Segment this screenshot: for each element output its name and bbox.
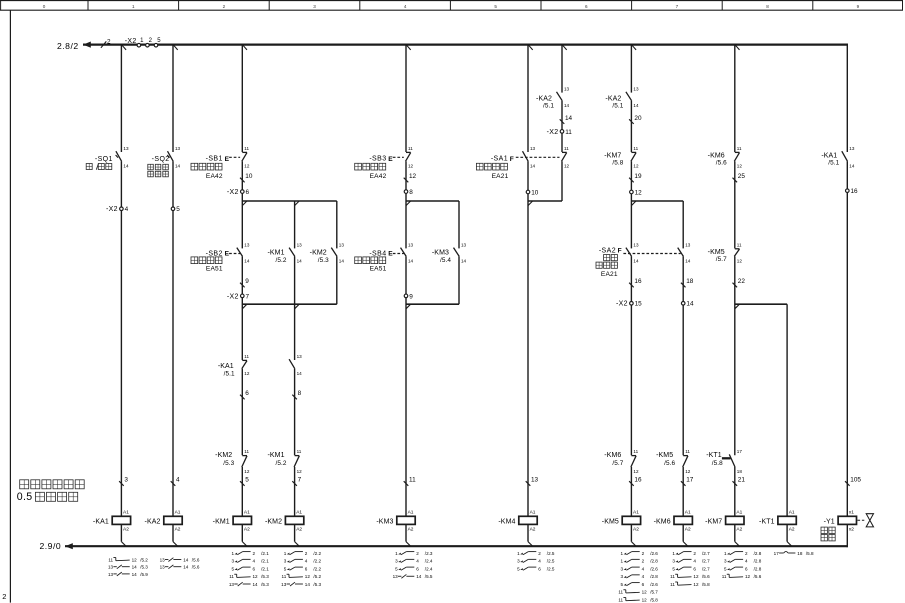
wire col3 node6 <box>241 369 243 456</box>
svg-text:/2.8: /2.8 <box>754 559 762 564</box>
svg-text:E: E <box>225 251 230 258</box>
label -KA2 /5.1 <box>536 96 554 110</box>
svg-text:/5.3: /5.3 <box>261 574 269 579</box>
rail branch to KT1 coil <box>735 303 787 305</box>
svg-text:3: 3 <box>672 559 675 564</box>
svg-text:/2.5: /2.5 <box>547 566 555 571</box>
rail SA1 poles merge <box>528 200 562 202</box>
svg-text:11: 11 <box>564 146 569 151</box>
svg-text:/5.7: /5.7 <box>612 460 623 467</box>
SB1 actuator dashed link <box>229 156 240 158</box>
svg-text:/5.4: /5.4 <box>440 257 451 264</box>
svg-text:5: 5 <box>517 566 520 571</box>
svg-text:-SQ2: -SQ2 <box>152 156 170 163</box>
svg-text:/5.2: /5.2 <box>140 557 148 562</box>
svg-text:A1: A1 <box>530 510 536 516</box>
svg-text:14: 14 <box>123 164 129 169</box>
svg-text:E: E <box>388 251 393 258</box>
svg-text:-KA1: -KA1 <box>821 153 837 160</box>
wire number 8 <box>292 390 301 399</box>
wire number 11 <box>404 477 416 486</box>
svg-text:/5.8: /5.8 <box>712 460 723 467</box>
svg-text:/5.1: /5.1 <box>543 103 554 110</box>
svg-text:-SA1: -SA1 <box>491 156 508 163</box>
svg-text:/5.2: /5.2 <box>276 257 287 264</box>
label -KA1 /5.1 <box>218 363 235 378</box>
time relay coil KT1 <box>759 510 796 533</box>
svg-text:14: 14 <box>305 582 311 587</box>
svg-text:12: 12 <box>737 259 743 264</box>
svg-text:/2.2: /2.2 <box>313 566 321 571</box>
svg-text:12: 12 <box>244 469 250 474</box>
svg-text:13: 13 <box>244 242 250 247</box>
label text 砂轮架 <box>148 164 169 170</box>
svg-text:4: 4 <box>404 4 407 9</box>
svg-text:5: 5 <box>284 566 287 571</box>
contactor coil KM5 (head low speed) <box>602 510 641 533</box>
label EA51 (SB4) <box>370 265 387 272</box>
title strip frame <box>0 1 903 11</box>
interlock contact KM5 11-12 (second) <box>734 242 742 263</box>
svg-text:-X2: -X2 <box>616 301 628 308</box>
svg-text:11: 11 <box>565 129 572 136</box>
svg-text:13: 13 <box>461 242 467 247</box>
label -SQ2 砂轮架 进到位 <box>152 156 170 163</box>
svg-text:1: 1 <box>672 551 675 556</box>
holding contact KM1 13-14 <box>289 242 302 263</box>
svg-text:5: 5 <box>176 206 180 213</box>
terminal -X2:5 <box>171 206 180 213</box>
label EA21 (SA1) <box>492 173 509 180</box>
junction <box>632 45 636 50</box>
svg-text:A1: A1 <box>789 510 795 516</box>
svg-text:13: 13 <box>393 574 399 579</box>
svg-text:18: 18 <box>797 551 803 556</box>
holding contact KM3 13-14 <box>454 242 467 263</box>
wire col8.5 bottom <box>786 524 788 541</box>
terminal -X2:6 <box>227 189 250 196</box>
svg-text:2.9/0: 2.9/0 <box>40 541 62 551</box>
svg-text:1: 1 <box>231 551 234 556</box>
svg-text:-KM7: -KM7 <box>604 153 621 160</box>
label -KT1 /5.8 <box>706 452 723 467</box>
selector switch SA2 right pole 13-14 <box>678 242 691 263</box>
svg-text:-SA2: -SA2 <box>599 247 616 254</box>
wire number 6 <box>240 390 249 399</box>
svg-text:11: 11 <box>633 449 638 454</box>
relay contact KA1 11-12 (internal/external select) <box>242 354 250 376</box>
wire col3.5 above coil <box>294 467 296 516</box>
svg-text:9: 9 <box>409 293 413 300</box>
wire col7 upper <box>682 201 684 248</box>
wire col9 middle <box>846 161 848 516</box>
svg-text:-KM6: -KM6 <box>654 518 671 525</box>
wire number 20 <box>629 115 642 124</box>
wire col2 bottom <box>172 524 174 541</box>
label text 液压停止 <box>355 163 386 170</box>
contact cross-ref table KM6 <box>670 551 710 587</box>
terminal 10 <box>526 189 539 196</box>
contactor coil KM4 (coolant pump) <box>498 510 537 533</box>
wire col5.5 top <box>561 45 563 93</box>
label -KM3 /5.4 <box>432 250 451 265</box>
svg-text:13: 13 <box>123 146 129 151</box>
junction <box>735 542 740 547</box>
label EA42 (SB3) <box>370 173 387 180</box>
svg-text:-X2: -X2 <box>106 206 118 213</box>
junction <box>528 201 533 206</box>
timer delayed contact KT1 17-18 <box>722 449 742 474</box>
svg-text:A2: A2 <box>736 527 742 533</box>
junction <box>242 304 247 309</box>
wire col7 above coil <box>682 467 684 516</box>
svg-text:14: 14 <box>565 115 573 122</box>
svg-text:5: 5 <box>231 566 234 571</box>
junction <box>122 45 126 50</box>
svg-text:-KM5: -KM5 <box>656 452 673 459</box>
svg-text:/5.8: /5.8 <box>612 160 623 167</box>
svg-text:-Y1: -Y1 <box>824 518 835 525</box>
stop pushbutton SB3 contact 11-12 <box>406 146 414 169</box>
terminal 16 <box>846 188 859 195</box>
svg-text:/5.3: /5.3 <box>261 582 269 587</box>
svg-text:A1: A1 <box>408 510 414 516</box>
svg-text:/2.8: /2.8 <box>650 559 658 564</box>
svg-text:/5.6: /5.6 <box>702 574 710 579</box>
svg-text:/2.4: /2.4 <box>425 566 433 571</box>
terminal -X2:15 <box>616 301 642 308</box>
wire number 10 <box>240 173 253 182</box>
svg-text:/5.6: /5.6 <box>192 565 200 570</box>
svg-text:13: 13 <box>160 565 166 570</box>
wire number 12 <box>404 173 417 182</box>
wire col5.5 bottom <box>561 161 563 201</box>
svg-text:A1: A1 <box>633 510 639 516</box>
svg-text:EA51: EA51 <box>370 265 387 272</box>
svg-text:11: 11 <box>244 354 249 359</box>
svg-text:12: 12 <box>635 189 643 196</box>
note 未作标注的为 0.5平方线径 <box>17 480 84 503</box>
svg-text:/2.1: /2.1 <box>261 559 269 564</box>
label text 床头 <box>604 255 618 261</box>
svg-text:4: 4 <box>745 559 748 564</box>
svg-text:2.8/2: 2.8/2 <box>57 41 79 51</box>
terminal 12 <box>630 189 643 196</box>
svg-text:/5.8: /5.8 <box>650 597 658 602</box>
svg-text:4: 4 <box>642 566 645 571</box>
svg-text:8: 8 <box>766 4 769 9</box>
wire col8 above coil <box>734 467 736 516</box>
svg-text:12: 12 <box>642 590 648 595</box>
svg-text:A2: A2 <box>244 527 250 533</box>
junction <box>736 45 740 50</box>
svg-text:13: 13 <box>297 242 303 247</box>
svg-text:-SB2: -SB2 <box>206 250 223 257</box>
label text 高低速 <box>596 262 617 268</box>
label text 砂轮启动 <box>191 257 222 264</box>
contact cross-ref table KM7 <box>722 551 762 579</box>
svg-text:/5.3: /5.3 <box>223 460 234 467</box>
svg-text:/5.1: /5.1 <box>828 160 839 167</box>
svg-text:/5.7: /5.7 <box>650 590 658 595</box>
svg-text:14: 14 <box>686 301 694 308</box>
wire col1 top <box>120 45 122 152</box>
svg-text:/5.9: /5.9 <box>140 572 148 577</box>
svg-text:14: 14 <box>339 259 345 264</box>
svg-text:13: 13 <box>633 87 639 92</box>
svg-text:-KA2: -KA2 <box>605 96 621 103</box>
svg-text:13: 13 <box>229 582 235 587</box>
svg-text:x1: x1 <box>849 510 854 516</box>
svg-text:/2.2: /2.2 <box>313 559 321 564</box>
svg-text:EA42: EA42 <box>370 173 387 180</box>
svg-text:12: 12 <box>244 371 250 376</box>
svg-text:/2.7: /2.7 <box>702 559 710 564</box>
svg-text:14: 14 <box>132 565 138 570</box>
interlock contact KM7 11-12 <box>631 146 639 169</box>
wire col2 top <box>172 45 174 152</box>
svg-text:22: 22 <box>738 278 746 285</box>
svg-text:11: 11 <box>244 146 249 151</box>
svg-text:E: E <box>225 156 230 163</box>
wire col8.5 <box>786 304 788 516</box>
svg-text:13: 13 <box>849 146 855 151</box>
svg-text:/5.2: /5.2 <box>313 574 321 579</box>
left page border <box>9 10 11 602</box>
svg-text:11: 11 <box>229 574 234 579</box>
svg-text:0: 0 <box>43 4 46 9</box>
label -SB1 E 砂轮停止 EA42 <box>206 156 230 163</box>
interlock contact KM6 11-12 (second) <box>734 146 742 169</box>
label EA51 (SB2) <box>206 265 223 272</box>
stop pushbutton SB1 contact 11-12 <box>242 146 250 169</box>
svg-text:3: 3 <box>231 559 234 564</box>
wire col4 top <box>405 45 407 152</box>
svg-text:A2: A2 <box>175 527 181 533</box>
svg-text:A2: A2 <box>408 527 414 533</box>
svg-text:4: 4 <box>305 559 308 564</box>
wire col4 node12 <box>405 161 407 248</box>
svg-text:14: 14 <box>849 164 855 169</box>
svg-text:/2.5: /2.5 <box>547 551 555 556</box>
svg-text:F: F <box>618 248 622 255</box>
wire number 7 <box>292 477 301 486</box>
wire col3 node9 <box>241 256 243 360</box>
svg-text:1: 1 <box>395 551 398 556</box>
interlock contact KM2 11-12 <box>242 449 250 474</box>
svg-text:/2.3: /2.3 <box>425 551 433 556</box>
svg-text:5: 5 <box>494 4 497 9</box>
svg-text:2: 2 <box>538 551 541 556</box>
rail node12 to SA2 right pole <box>631 200 683 202</box>
wire number 17 <box>681 477 694 486</box>
svg-text:4: 4 <box>538 559 541 564</box>
label -SB2 E 砂轮启动 EA51 <box>206 250 230 257</box>
svg-text:12: 12 <box>244 164 250 169</box>
svg-text:16: 16 <box>634 278 642 285</box>
junction <box>173 542 178 547</box>
contact cross-ref table KT1 <box>774 551 814 556</box>
label text 液压启动 <box>355 257 386 264</box>
svg-text:/5.8: /5.8 <box>702 582 710 587</box>
svg-text:/2.2: /2.2 <box>313 551 321 556</box>
wire col1 bottom <box>120 524 122 541</box>
svg-text:14: 14 <box>175 164 181 169</box>
wire col4.5 upper <box>458 201 460 248</box>
label -KM7 /5.8 <box>604 153 623 167</box>
svg-text:5: 5 <box>672 566 675 571</box>
selector switch SA1 left pole 13-14 <box>523 146 536 169</box>
wire col6 above coil <box>630 467 632 516</box>
label -KA2 /5.1 (second) <box>605 96 623 110</box>
wire number 16 (above KM5) <box>629 477 642 486</box>
label -KM2 /5.3 (hold) <box>310 250 329 265</box>
wire col6 node20 <box>630 101 632 152</box>
svg-text:12: 12 <box>685 469 691 474</box>
wire number 3 <box>119 477 128 486</box>
terminal 14 <box>681 301 694 308</box>
svg-text:-KM5: -KM5 <box>708 249 725 256</box>
svg-text:12: 12 <box>305 574 311 579</box>
svg-text:14: 14 <box>633 103 639 108</box>
svg-text:6: 6 <box>745 566 748 571</box>
label -KM6 /5.7 <box>604 452 623 467</box>
wire number 16 <box>629 278 642 287</box>
svg-text:8: 8 <box>298 390 302 397</box>
svg-text:A2: A2 <box>530 527 536 533</box>
svg-text:5: 5 <box>724 566 727 571</box>
svg-text:6: 6 <box>246 189 250 196</box>
contactor coil KM7 <box>705 510 744 533</box>
svg-text:3: 3 <box>517 559 520 564</box>
svg-text:A1: A1 <box>175 510 181 516</box>
svg-text:2: 2 <box>305 551 308 556</box>
relay coil KA1 <box>93 510 131 533</box>
svg-text:3: 3 <box>395 559 398 564</box>
SB4 actuator dashed link <box>393 253 404 255</box>
svg-text:7: 7 <box>298 477 302 484</box>
svg-text:12: 12 <box>693 582 699 587</box>
svg-text:/2.7: /2.7 <box>702 551 710 556</box>
wire col8 bottom <box>734 524 736 541</box>
svg-text:4: 4 <box>125 206 129 213</box>
svg-text:14: 14 <box>244 259 250 264</box>
junction <box>295 304 300 309</box>
wire number 13 <box>526 477 539 486</box>
svg-text:-KA1: -KA1 <box>218 363 234 370</box>
relay coil KA2 <box>145 510 183 533</box>
junction <box>528 542 533 547</box>
wire col6 node19 <box>630 161 632 248</box>
junction <box>406 542 411 547</box>
svg-text:6: 6 <box>693 566 696 571</box>
svg-text:6: 6 <box>642 582 645 587</box>
svg-text:1: 1 <box>621 551 624 556</box>
rail start-branch (node 6) SB2/KM1/KM2 parallel <box>242 200 336 202</box>
svg-text:/2.6: /2.6 <box>650 551 658 556</box>
contact cross-ref table KA2 <box>160 557 200 569</box>
label -SA1 F 冷却开关 EA21 <box>491 156 514 163</box>
svg-text:/5.6: /5.6 <box>192 557 200 562</box>
svg-text:3: 3 <box>621 574 624 579</box>
contactor coil KM3 (hydraulic) <box>376 510 415 533</box>
label -KM6 /5.6 <box>708 153 727 167</box>
svg-text:/2.4: /2.4 <box>425 559 433 564</box>
svg-text:/2.6: /2.6 <box>650 566 658 571</box>
svg-text:/5.5: /5.5 <box>425 574 433 579</box>
svg-text:A1: A1 <box>296 510 302 516</box>
label -KA1 /5.1 (col9) <box>821 153 839 167</box>
label text 砂轮停止 <box>191 163 222 170</box>
rail rejoin SB4/KM3 parallel <box>406 303 459 305</box>
terminal -X2:4 <box>106 206 129 213</box>
contact cross-ref table KM4 <box>517 551 555 572</box>
svg-text:-KM4: -KM4 <box>498 518 515 525</box>
svg-text:7: 7 <box>676 4 679 9</box>
wire col5 bottom <box>527 524 529 541</box>
svg-text:13: 13 <box>297 354 303 359</box>
svg-text:13: 13 <box>281 582 287 587</box>
svg-text:6: 6 <box>245 390 249 397</box>
svg-text:A2: A2 <box>685 527 691 533</box>
wire col3 above coil <box>241 467 243 516</box>
svg-text:5: 5 <box>395 566 398 571</box>
svg-text:9: 9 <box>857 4 860 9</box>
interlock contact KM1 11-12 <box>294 449 302 474</box>
selector switch SA2 left pole 13-14 <box>626 242 639 263</box>
svg-text:14: 14 <box>461 259 467 264</box>
svg-text:18: 18 <box>686 278 694 285</box>
SA2 selector dashed linkage <box>623 253 680 255</box>
wire col3 node10 <box>241 161 243 248</box>
svg-text:12: 12 <box>132 557 138 562</box>
wire col9 bottom <box>846 524 848 547</box>
svg-text:2: 2 <box>253 551 256 556</box>
label -KM1 /5.2 (interlock) <box>267 452 286 467</box>
wire col8 node22 <box>734 256 736 455</box>
svg-text:-KM3: -KM3 <box>376 518 393 525</box>
junction <box>406 304 411 309</box>
svg-text:13: 13 <box>160 557 166 562</box>
svg-text:19: 19 <box>634 173 642 180</box>
svg-text:-KM1: -KM1 <box>267 250 284 257</box>
svg-text:/2.1: /2.1 <box>261 551 269 556</box>
svg-text:17: 17 <box>774 551 780 556</box>
svg-text:14: 14 <box>297 259 303 264</box>
svg-text:13: 13 <box>685 242 691 247</box>
label text 内/外磨 <box>86 163 112 169</box>
contact cross-ref table KM1 <box>229 551 269 587</box>
svg-text:A2: A2 <box>633 527 639 533</box>
rail start-branch (node 8) SB4/KM3 parallel <box>406 200 459 202</box>
interlock contact KM6 11-12 <box>631 449 639 474</box>
wire col3.5 bottom <box>294 524 296 541</box>
svg-text:12: 12 <box>693 574 699 579</box>
svg-text:14: 14 <box>633 259 639 264</box>
svg-text:1: 1 <box>724 551 727 556</box>
wire col8 node25 <box>734 161 736 248</box>
svg-text:/5.6: /5.6 <box>716 160 727 167</box>
junction <box>295 542 300 547</box>
svg-text:4: 4 <box>416 559 419 564</box>
wire number 22 <box>733 278 746 287</box>
svg-text:/5.1: /5.1 <box>612 103 623 110</box>
contact cross-ref table KM2 <box>281 551 321 587</box>
svg-text:A1: A1 <box>244 510 250 516</box>
wire col3.5 mid <box>294 256 296 360</box>
wire number 25 <box>733 173 746 182</box>
start pushbutton SB4 contact 13-14 <box>401 242 414 263</box>
